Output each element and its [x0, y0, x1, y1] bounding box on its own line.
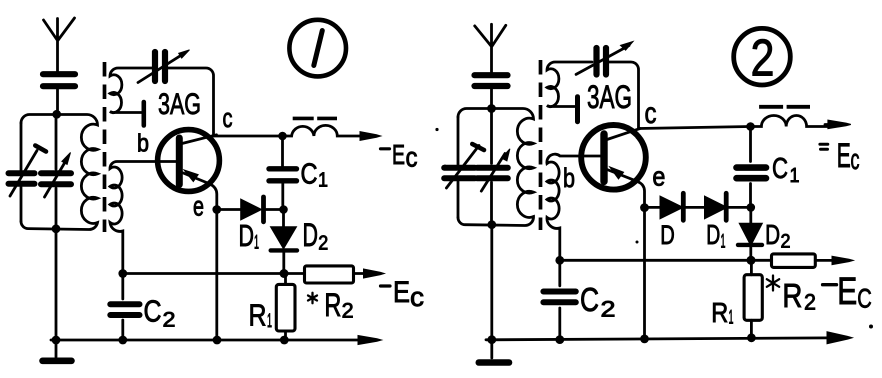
svg-text:2: 2 — [781, 232, 791, 253]
svg-text:C: C — [301, 159, 318, 191]
svg-text:2: 2 — [342, 300, 354, 323]
svg-text:C: C — [580, 281, 599, 318]
svg-text:C: C — [857, 284, 872, 314]
svg-text:2: 2 — [804, 290, 816, 315]
svg-text:c: c — [851, 144, 860, 176]
svg-text:R: R — [249, 298, 267, 333]
svg-text:C: C — [772, 153, 788, 185]
svg-text:C: C — [144, 294, 162, 329]
svg-text:2: 2 — [751, 29, 775, 87]
svg-text:E: E — [837, 271, 857, 313]
svg-text:D: D — [706, 219, 720, 250]
svg-text:E: E — [393, 276, 410, 309]
svg-text:e: e — [652, 161, 665, 191]
svg-text:c: c — [645, 97, 657, 130]
svg-text:3AG: 3AG — [158, 88, 201, 121]
svg-text:D: D — [303, 217, 319, 253]
svg-text:2: 2 — [163, 309, 176, 332]
svg-text:b: b — [563, 163, 575, 193]
svg-text:c: c — [223, 103, 233, 133]
svg-text:R: R — [782, 277, 802, 314]
svg-text:c: c — [410, 282, 424, 312]
svg-text:2: 2 — [601, 296, 616, 321]
svg-text:E: E — [392, 139, 405, 170]
svg-text:D: D — [660, 220, 675, 250]
svg-text:E: E — [837, 137, 851, 175]
svg-text:D: D — [239, 218, 255, 253]
svg-text:R: R — [324, 287, 341, 323]
svg-text:1: 1 — [318, 170, 328, 192]
svg-text:1: 1 — [267, 311, 272, 332]
svg-text:e: e — [193, 191, 204, 222]
svg-text:D: D — [765, 219, 780, 250]
svg-text:R: R — [711, 297, 728, 328]
svg-text:b: b — [137, 130, 149, 158]
svg-text:c: c — [406, 141, 418, 172]
svg-text:1: 1 — [729, 308, 734, 329]
svg-text:2: 2 — [318, 233, 328, 255]
svg-text:1: 1 — [790, 165, 800, 187]
svg-text:1: 1 — [721, 232, 726, 253]
svg-text:1: 1 — [254, 232, 259, 253]
svg-text:3AG: 3AG — [587, 79, 632, 115]
